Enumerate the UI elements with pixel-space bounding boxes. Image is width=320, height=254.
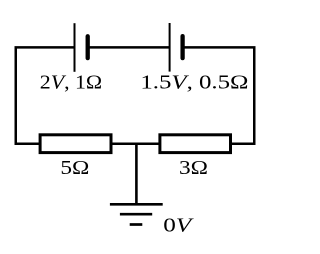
battery cell E2: short thick plate (negative) xyxy=(180,36,184,58)
battery cell E1: long thin plate (positive) xyxy=(74,23,76,72)
svg-text:0V: 0V xyxy=(163,216,194,237)
wire: left branch (top-left corner down to 5-ohm resistor) xyxy=(16,47,75,143)
battery cell E2: long thin plate (positive) xyxy=(169,23,171,72)
resistor R2 (3 ohm) box xyxy=(160,135,231,153)
ground symbol: middle bar xyxy=(120,213,152,216)
svg-text:5Ω: 5Ω xyxy=(60,158,89,179)
svg-text:3Ω: 3Ω xyxy=(179,158,208,179)
svg-text:2V, 1Ω: 2V, 1Ω xyxy=(40,72,102,93)
svg-text:1.5V, 0.5Ω: 1.5V, 0.5Ω xyxy=(140,72,248,93)
ground symbol: top (longest) bar xyxy=(110,203,163,206)
resistor R1 (5 ohm) box xyxy=(40,135,111,153)
ground symbol: bottom (shortest) bar xyxy=(130,223,143,226)
battery cell E1: short thick plate (negative) xyxy=(86,36,90,58)
wire: junction node down to ground xyxy=(135,145,138,204)
wire: top middle segment between cell E1 and cell E2 xyxy=(88,46,170,49)
wire: right branch (cell E2 to top-right corner down to 3-ohm resistor) xyxy=(183,47,255,143)
wire: middle segment between R1 and R2 xyxy=(112,143,160,146)
